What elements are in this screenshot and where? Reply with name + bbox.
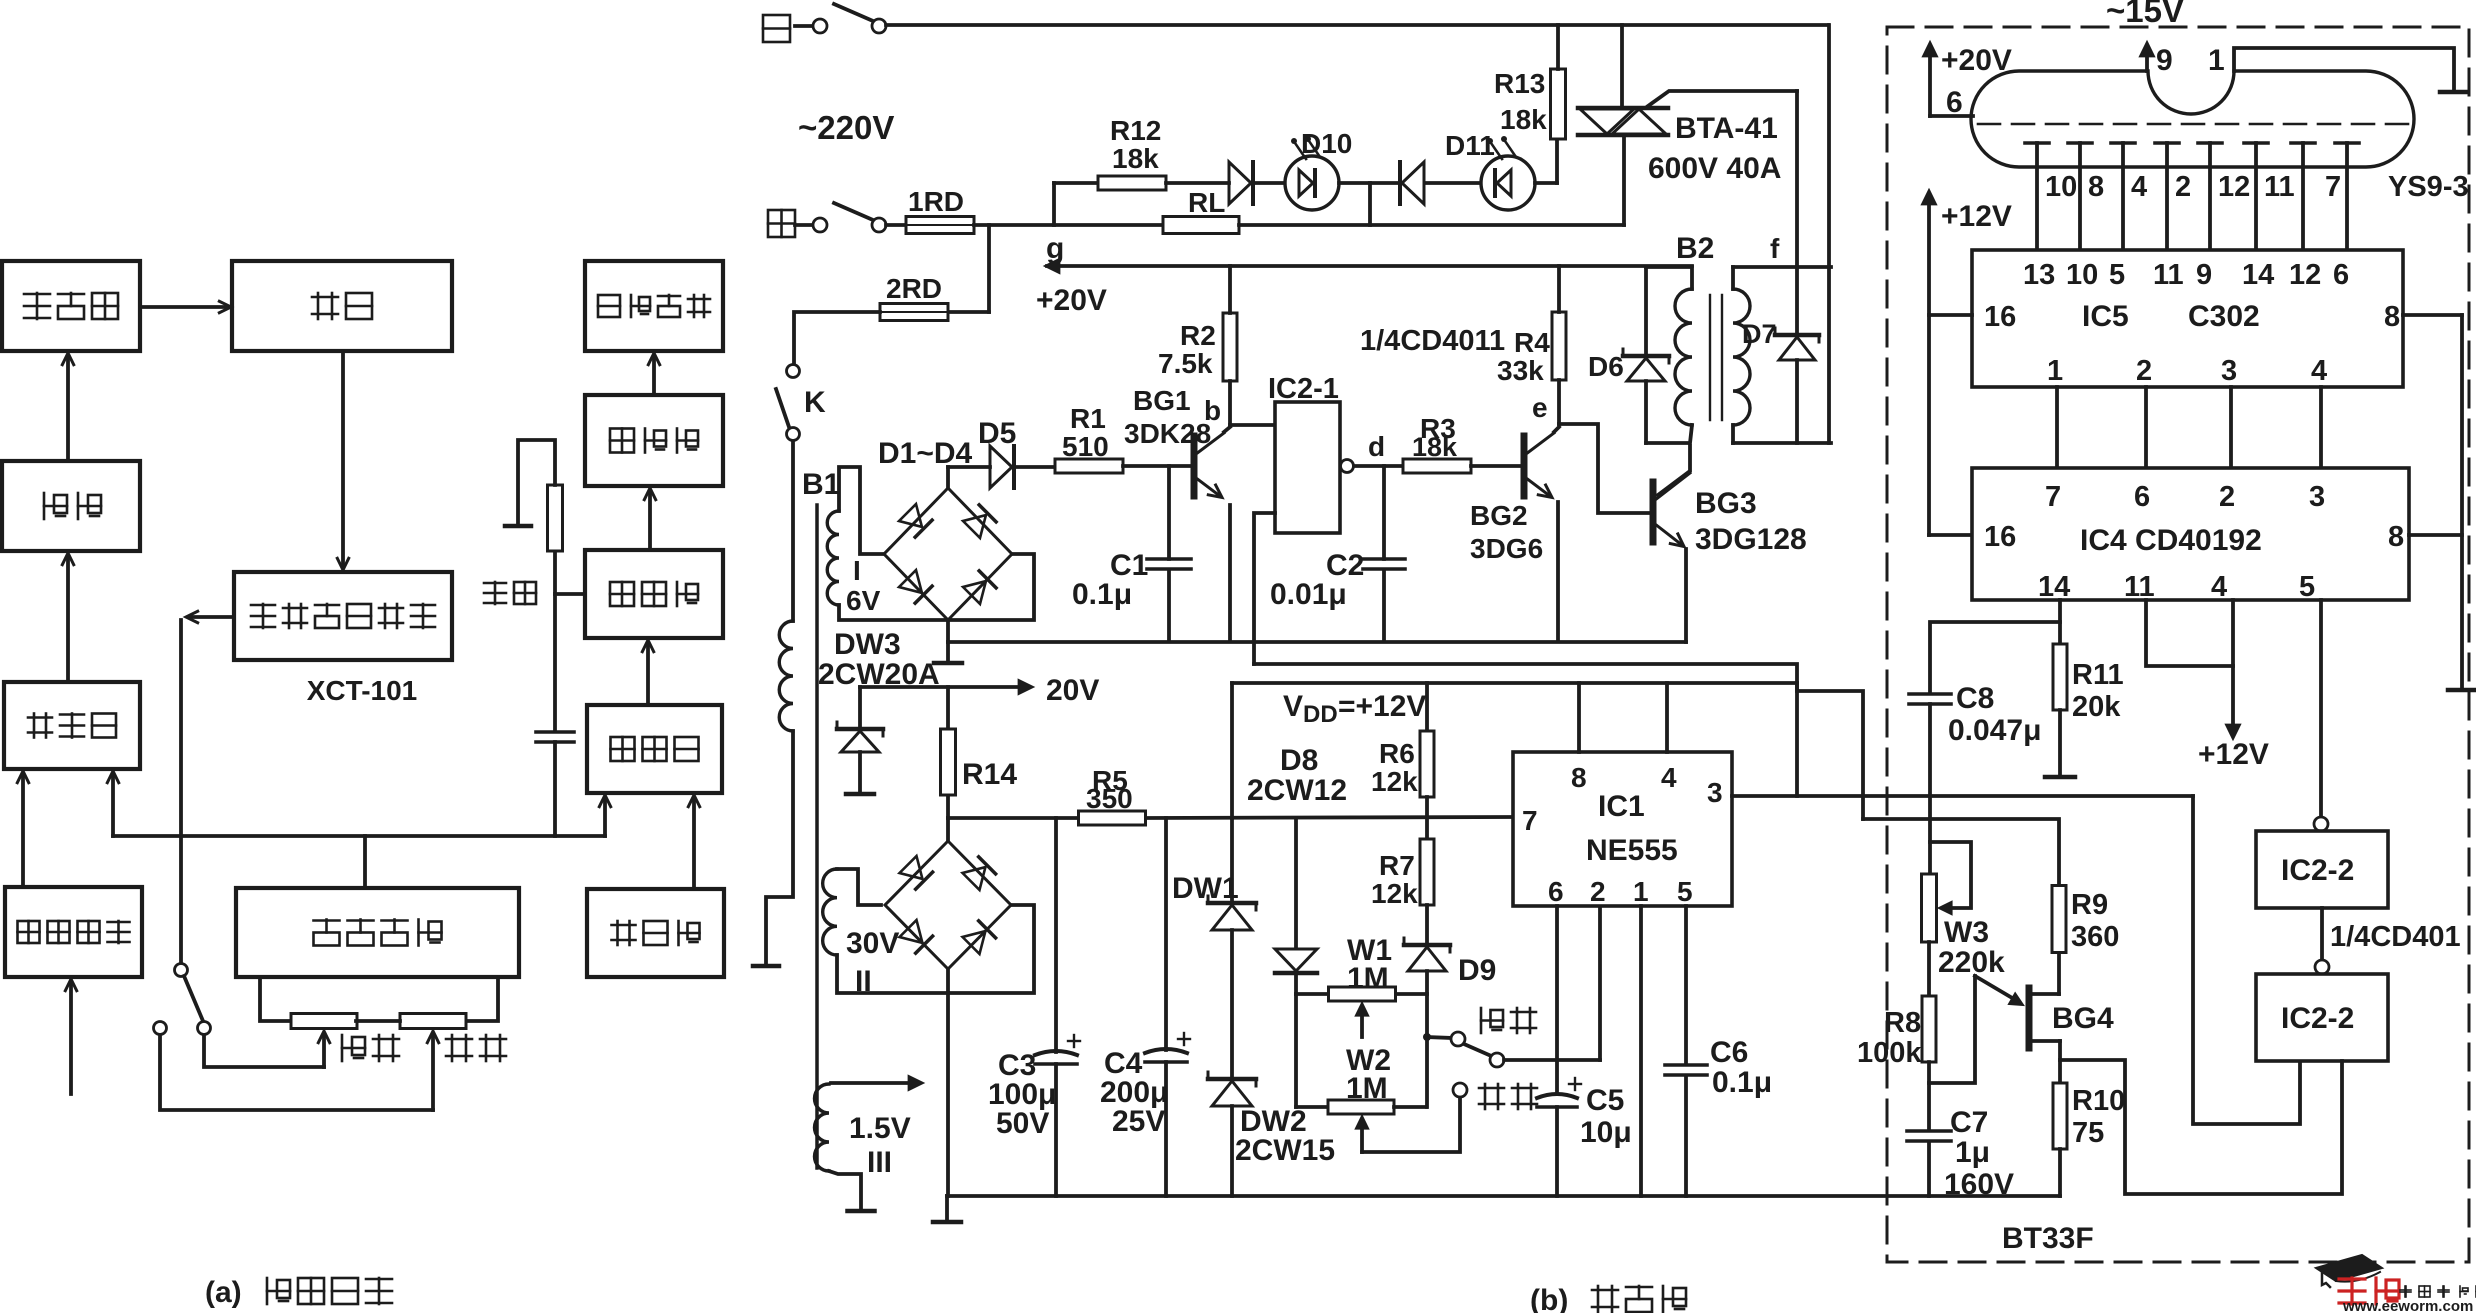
- IC4 bottom pin 14 label: [2038, 571, 2070, 603]
- resistor RL: [1163, 217, 1239, 234]
- svg-text:6: 6: [2333, 259, 2349, 291]
- svg-text:8: 8: [2088, 171, 2104, 203]
- wire C5 bottom: [1555, 1107, 1559, 1196]
- block 数字显示 (digital display): [585, 261, 723, 351]
- pin 4 label: [1661, 762, 1677, 793]
- transistor BG1 3DK28: [1194, 433, 1224, 498]
- label BTA-41: [1675, 112, 1778, 145]
- label +12V left: [1941, 200, 2012, 233]
- svg-text:BG4: BG4: [2052, 1002, 2114, 1035]
- label 下限 (lower limit): [446, 1035, 506, 1061]
- wire winding I top->bridge1: [839, 467, 884, 554]
- potentiometer W2 1M: [1328, 1100, 1394, 1114]
- svg-text:+12V: +12V: [1941, 200, 2012, 233]
- wire IC2-2 cascade: [2320, 908, 2324, 960]
- wire DW2 bottom: [1230, 1106, 1234, 1196]
- arrow bus->控制门: [107, 771, 118, 836]
- label 1.5V: [849, 1112, 911, 1145]
- power +20V arrow: [1923, 42, 1937, 116]
- wire D6 bottom: [1644, 381, 1648, 443]
- wire C1 top: [1167, 466, 1171, 559]
- svg-text:2CW12: 2CW12: [1247, 774, 1347, 807]
- wire selector->上限 wiper: [204, 1035, 324, 1067]
- label C2 value 0.01μ: [1270, 578, 1347, 611]
- switch feedback selector: [154, 964, 211, 1035]
- label R3: [1420, 413, 1456, 444]
- bubble IC2-1 output: [1341, 460, 1354, 473]
- svg-text:6: 6: [1548, 876, 1564, 907]
- svg-text:C7: C7: [1950, 1106, 1988, 1139]
- terminal 火: [795, 218, 827, 232]
- label R4: [1514, 327, 1550, 358]
- svg-text:14: 14: [2038, 571, 2070, 603]
- label b: [1204, 395, 1221, 426]
- svg-text:~220V: ~220V: [798, 109, 894, 146]
- svg-text:=+12V: =+12V: [1338, 690, 1426, 723]
- wire BG2 emitter down: [1556, 502, 1560, 641]
- terminal T 清零 hook: [505, 524, 531, 529]
- svg-text:50V: 50V: [996, 1107, 1049, 1140]
- svg-text:1M: 1M: [1347, 962, 1389, 995]
- label R4 value 33k: [1497, 355, 1544, 386]
- svg-text:5: 5: [1677, 876, 1693, 907]
- svg-text:4: 4: [2311, 355, 2327, 387]
- label R11 value 20k: [2072, 691, 2121, 723]
- label IC5: [2082, 300, 2129, 333]
- IC IC1 NE555 box: [1513, 752, 1732, 906]
- wire 火->1RD: [886, 223, 906, 227]
- svg-text:+12V: +12V: [2198, 738, 2269, 771]
- display electrode pin 6: [2291, 143, 2315, 250]
- label +20V right: [1941, 44, 2012, 77]
- svg-text:R7: R7: [1379, 850, 1415, 881]
- wire display pin1 route: [2234, 48, 2468, 92]
- label IC2-2 upper: [2281, 854, 2354, 887]
- wire C2 bottom: [1382, 570, 1386, 641]
- wire IC5 pin16 +12V: [1929, 313, 1972, 317]
- wire winding III arrow: [831, 1076, 923, 1090]
- label IC1: [1598, 790, 1645, 823]
- wire D6 branch top: [1644, 267, 1648, 353]
- svg-text:33k: 33k: [1497, 355, 1544, 386]
- svg-text:14: 14: [2242, 259, 2274, 291]
- wire BG4 b2->R9: [2031, 953, 2059, 994]
- svg-text:C8: C8: [1956, 682, 1994, 715]
- svg-text:6V: 6V: [846, 585, 881, 616]
- wire B2 primary bottom->BG3: [1658, 446, 1690, 495]
- diode D10: [1229, 162, 1253, 204]
- svg-text:18k: 18k: [1412, 432, 1458, 462]
- IC5 bottom pin 4: [2311, 355, 2327, 468]
- potentiometer W3 220k: [1922, 874, 1937, 942]
- svg-text:7: 7: [2325, 171, 2341, 203]
- svg-text:20V: 20V: [1046, 674, 1099, 707]
- block 触发 (trigger): [2, 461, 140, 551]
- svg-text:D10: D10: [1301, 128, 1352, 159]
- wire W3->R8: [1927, 942, 1931, 996]
- svg-text:DD: DD: [1303, 701, 1338, 728]
- svg-text:1.5V: 1.5V: [849, 1112, 911, 1145]
- wire BG4 emitter branch: [1929, 976, 2023, 1083]
- arrow 可控硅->电炉: [140, 301, 231, 312]
- svg-text:3DK28: 3DK28: [1124, 418, 1211, 449]
- svg-text:D8: D8: [1280, 744, 1318, 777]
- wiper 上限 preset: [318, 1031, 329, 1067]
- wire lower rail: [1254, 664, 1863, 819]
- wire display pin6: [1930, 114, 1973, 118]
- wire IC2-1 out->d: [1354, 464, 1403, 468]
- resistor R4: [1552, 312, 1566, 380]
- label C3 value 100μ: [988, 1078, 1056, 1111]
- wire bridge2 top stub: [946, 818, 950, 841]
- wire C4 bottom: [1164, 1062, 1168, 1196]
- watermark www.eeworm.com: [2342, 1298, 2473, 1313]
- label D8: [1280, 744, 1318, 777]
- label 1RD: [908, 186, 964, 217]
- transistor BG2 3DG6: [1524, 433, 1554, 498]
- IC5 top pin 14 label: [2242, 259, 2274, 291]
- IC IC4 CD40192 box: [1972, 468, 2409, 600]
- block 过零脉冲 (zero-cross pulse): [5, 887, 142, 977]
- rail VDD +12V: [1232, 681, 1797, 685]
- transistor BG3 3DG128: [1653, 473, 1690, 547]
- label ~15V: [2106, 0, 2184, 29]
- label IC4 pin8: [2388, 521, 2404, 553]
- label RL: [1188, 187, 1225, 218]
- watermark 虫虫 red: [2339, 1278, 2399, 1304]
- IC5 top pin 5 label: [2109, 259, 2125, 291]
- label C8: [1956, 682, 1994, 715]
- label +12V bottom: [2198, 738, 2269, 771]
- label R1: [1070, 403, 1106, 434]
- svg-text:8: 8: [2384, 301, 2400, 333]
- label C6: [1710, 1036, 1748, 1069]
- IC5 bottom pin 1: [2047, 355, 2063, 468]
- label e: [1532, 392, 1548, 423]
- arrow bus->计数门: [599, 795, 610, 836]
- label 2CW12: [1247, 774, 1347, 807]
- svg-text:8: 8: [2388, 521, 2404, 553]
- svg-text:YS9-3: YS9-3: [2388, 171, 2469, 203]
- label VDD=+12V: [1283, 690, 1426, 728]
- label 清零 (clear): [484, 582, 536, 604]
- pin 6 label: [1548, 876, 1564, 907]
- wire RL->triac: [1239, 223, 1624, 227]
- label C5 value 10μ: [1580, 1116, 1632, 1149]
- wire +20V->R2: [1228, 266, 1232, 313]
- wire bridge2->ground rail: [946, 993, 950, 1196]
- wiper W2: [1356, 1116, 1368, 1152]
- svg-text:220k: 220k: [1938, 946, 2005, 979]
- svg-text:C5: C5: [1586, 1084, 1624, 1117]
- label C302: [2188, 300, 2260, 333]
- fuse 2RD: [880, 304, 948, 321]
- label C4 value 200μ: [1100, 1076, 1168, 1109]
- transistor BG4 BT33F: [2026, 988, 2033, 1048]
- wire C1 bottom: [1167, 570, 1171, 641]
- wire pin1 ground: [1639, 906, 1643, 1196]
- wire IC2-2 out right: [2060, 1060, 2342, 1194]
- wire BG2 collector->e: [1554, 427, 1559, 432]
- svg-text:IC2-2: IC2-2: [2281, 854, 2354, 887]
- svg-text:30V: 30V: [846, 927, 899, 960]
- svg-text:0.01μ: 0.01μ: [1270, 578, 1347, 611]
- pin 3 label: [1707, 777, 1723, 808]
- wire triac->f: [1648, 91, 1797, 267]
- label W2 value 1M: [1346, 1072, 1388, 1105]
- wire winding II bottom->bridge2: [837, 955, 948, 993]
- svg-text:1: 1: [2208, 44, 2225, 77]
- transformer B2 core: [1710, 295, 1722, 420]
- label D11: [1445, 130, 1495, 161]
- wire IC4 pin11 down: [2146, 600, 2233, 666]
- LED optocoupler 2: [1481, 136, 1535, 210]
- label C7 value 1μ: [1955, 1136, 1990, 1169]
- svg-text:2RD: 2RD: [886, 273, 942, 304]
- capacitor C8: [1909, 694, 1951, 704]
- wire 1RD->RL: [974, 223, 1164, 227]
- label IC5 pin8: [2384, 301, 2400, 333]
- label 2CW15: [1235, 1134, 1335, 1167]
- label C1: [1110, 549, 1148, 582]
- svg-text:V: V: [1283, 690, 1303, 723]
- transformer B1 winding I 6V: [827, 511, 839, 605]
- label W2: [1346, 1044, 1391, 1077]
- label pin 1: [2208, 44, 2225, 77]
- wire D11->LED2: [1427, 181, 1481, 185]
- label C7 voltage 160V: [1944, 1168, 2014, 1201]
- wire D8 branch: [1294, 818, 1298, 947]
- block 译码器 (decoder): [585, 395, 723, 486]
- wire BG1 emitter down: [1228, 505, 1232, 641]
- label 3DG6: [1470, 533, 1543, 564]
- label R8 value 100k: [1857, 1037, 1922, 1069]
- wire W2 right lead: [1394, 1105, 1426, 1109]
- wire R8->C7: [1927, 1062, 1931, 1128]
- label R3 value 18k: [1412, 432, 1458, 462]
- svg-text:C6: C6: [1710, 1036, 1748, 1069]
- potentiometer 上限 preset: [291, 1014, 357, 1029]
- wire VDD riser: [1230, 683, 1234, 818]
- wire 下限 wiper route: [1362, 1098, 1460, 1152]
- svg-text:12: 12: [2289, 259, 2321, 291]
- wire C8->W3: [1928, 704, 1932, 874]
- svg-text:R9: R9: [2071, 889, 2108, 921]
- label C7: [1950, 1106, 1988, 1139]
- svg-text:1M: 1M: [1346, 1072, 1388, 1105]
- label C4: [1104, 1047, 1143, 1080]
- label C2: [1326, 549, 1364, 582]
- label 3DK28: [1124, 418, 1211, 449]
- svg-text:3DG6: 3DG6: [1470, 533, 1543, 564]
- wire 清零 net: [555, 551, 585, 729]
- arrow 振荡器->计数门: [688, 795, 699, 889]
- resistor R5: [1079, 811, 1146, 825]
- capacitor C2: [1363, 559, 1405, 569]
- resistor R11: [2053, 644, 2067, 710]
- watermark cap icon: [2316, 1255, 2382, 1287]
- wire IC2-1 bottom pin: [1254, 513, 1275, 664]
- label R10: [2072, 1085, 2125, 1117]
- svg-text:160V: 160V: [1944, 1168, 2014, 1201]
- svg-text:100k: 100k: [1857, 1037, 1922, 1069]
- label C1 value 0.1μ: [1072, 578, 1132, 611]
- wire winding III bottom: [829, 1171, 875, 1211]
- ground DW3 stub: [934, 642, 962, 663]
- transformer B1 winding II 30V: [823, 869, 837, 955]
- arrow 计数门->计数器: [642, 640, 653, 705]
- label 下限 circuit: [1479, 1084, 1537, 1109]
- svg-text:12: 12: [2218, 171, 2250, 203]
- label R12: [1110, 115, 1161, 146]
- wire LED2->R13 bottom: [1535, 139, 1557, 183]
- label ~220V: [798, 109, 894, 146]
- pin 2 label: [1590, 876, 1606, 907]
- zener DW1: [1208, 896, 1256, 930]
- capacitor C5 electrolytic: [1537, 1078, 1581, 1107]
- wire 温度检错控制 left + arrow: [186, 611, 234, 622]
- label D1~D4: [878, 437, 973, 470]
- wire 上限->pin2: [1504, 906, 1600, 1060]
- svg-text:2: 2: [2136, 355, 2152, 387]
- svg-text:4: 4: [1661, 762, 1677, 793]
- label 20V: [1046, 674, 1099, 707]
- bus pins8 vertical: [2448, 315, 2476, 690]
- svg-text:B2: B2: [1676, 232, 1714, 265]
- wire R13 top: [1556, 25, 1560, 69]
- label C6 value 0.1μ: [1712, 1066, 1772, 1099]
- pin 5 label: [1677, 876, 1693, 907]
- wiper W3 loop: [1930, 842, 1971, 914]
- label R10 value 75: [2072, 1117, 2104, 1149]
- label BG1: [1133, 385, 1191, 416]
- label BG4: [2052, 1002, 2114, 1035]
- resistor R3: [1403, 459, 1471, 473]
- node g vertical: [1052, 183, 1056, 225]
- label D5: [978, 417, 1016, 450]
- arrow 控制门->触发: [62, 553, 73, 682]
- svg-text:1/4CD4011: 1/4CD4011: [1360, 325, 1505, 357]
- IC4 top pin 3 label: [2309, 481, 2325, 513]
- wire between presets: [356, 1019, 400, 1023]
- zener D6: [1623, 349, 1669, 381]
- arrow 计数器->译码器: [644, 488, 655, 550]
- wire LED1->D11: [1339, 181, 1400, 185]
- wire 清零 resistor top hook: [518, 440, 555, 524]
- svg-text:11: 11: [2264, 171, 2295, 203]
- svg-text:C302: C302: [2188, 300, 2260, 333]
- label R7: [1379, 850, 1415, 881]
- block 控制门 (control gate): [4, 682, 140, 769]
- wire IC4 pin16 link: [1929, 533, 1972, 537]
- label C5: [1586, 1084, 1624, 1117]
- LED optocoupler 1: [1285, 136, 1339, 210]
- svg-text:+20V: +20V: [1941, 44, 2012, 77]
- label R8: [1884, 1007, 1921, 1039]
- resistor R10: [2053, 1083, 2067, 1149]
- svg-text:D11: D11: [1445, 130, 1495, 161]
- label R11: [2072, 659, 2124, 691]
- wire 清零 cap to bus: [553, 742, 557, 836]
- display electrode pin 12: [2198, 143, 2250, 250]
- svg-text:RL: RL: [1188, 187, 1225, 218]
- label II: [855, 965, 872, 998]
- display electrode pin 11: [2244, 143, 2295, 250]
- wire R5->IC1 pin7: [1146, 817, 1513, 818]
- svg-text:I: I: [853, 555, 861, 586]
- wire BG4 b1->R10: [2031, 1041, 2060, 1083]
- wire C6 bottom: [1684, 1076, 1688, 1196]
- label +20V: [1036, 284, 1107, 317]
- bridge rectifier II: [885, 841, 1011, 969]
- svg-text:d: d: [1368, 431, 1385, 462]
- wire IC4 pin5->IC2-2: [2319, 600, 2323, 817]
- diode D11: [1400, 162, 1424, 204]
- label C3: [998, 1049, 1036, 1082]
- label D9: [1458, 954, 1496, 987]
- svg-text:13: 13: [2023, 259, 2055, 291]
- svg-text:4: 4: [2211, 571, 2227, 603]
- junction LED1/D11 to RL line: [1368, 183, 1372, 225]
- IC5 top pin 9 label: [2196, 259, 2212, 291]
- display electrode pin 10: [2025, 143, 2077, 250]
- label R6 value 12k: [1371, 766, 1418, 797]
- wire R6->pin7 node: [1425, 797, 1429, 839]
- label B1: [802, 468, 840, 501]
- IC5 top pin 11 label: [2153, 259, 2184, 291]
- block 计数门 (counting gate): [587, 705, 722, 793]
- label R14: [962, 758, 1017, 791]
- svg-text:12k: 12k: [1371, 878, 1418, 909]
- svg-text:7: 7: [1522, 805, 1538, 836]
- label W3: [1944, 916, 1989, 949]
- potentiometer W1 1M: [1329, 987, 1396, 1001]
- svg-text:IC5: IC5: [2082, 300, 2129, 333]
- wire +20V->R4: [1557, 266, 1561, 312]
- svg-text:600V 40A: 600V 40A: [1648, 152, 1781, 185]
- wire VDD->pin3 drop: [1795, 683, 1799, 796]
- wire winding II top->bridge2: [837, 869, 881, 905]
- svg-text:D1~D4: D1~D4: [878, 437, 973, 470]
- svg-text:8: 8: [1571, 762, 1587, 793]
- svg-text:R11: R11: [2072, 659, 2124, 691]
- wire D5->R1: [1016, 465, 1055, 469]
- block 计数器 (counter): [585, 550, 723, 638]
- wire C3 bottom: [1054, 1064, 1058, 1196]
- wire e->BG3 base: [1559, 424, 1648, 513]
- wire pin4 VDD: [1665, 683, 1669, 752]
- svg-text:BG2: BG2: [1470, 500, 1528, 531]
- svg-text:25V: 25V: [1112, 1105, 1165, 1138]
- wire R11 ground: [2045, 710, 2075, 777]
- watermark 电子下载站: [2400, 1286, 2476, 1297]
- wire K->B1 primary: [791, 441, 795, 621]
- svg-text:B1: B1: [802, 468, 840, 501]
- gate IC2-1: [1275, 402, 1340, 533]
- label I: [853, 555, 861, 586]
- IC IC5 C302 box: [1972, 250, 2403, 387]
- wire IC4 pin8 right: [2409, 533, 2462, 537]
- wire D8->W1: [1296, 973, 1329, 994]
- block 振荡器 (oscillator): [587, 889, 724, 977]
- svg-text:3: 3: [2309, 481, 2325, 513]
- svg-text:www.eeworm.com: www.eeworm.com: [2342, 1298, 2473, 1313]
- wire R1->BG1 base: [1123, 464, 1191, 468]
- display electrode pin 7: [2325, 143, 2359, 250]
- svg-text:R14: R14: [962, 758, 1017, 791]
- caption (a) 组成框图: [205, 1276, 392, 1309]
- wire C3 top: [1054, 818, 1058, 1052]
